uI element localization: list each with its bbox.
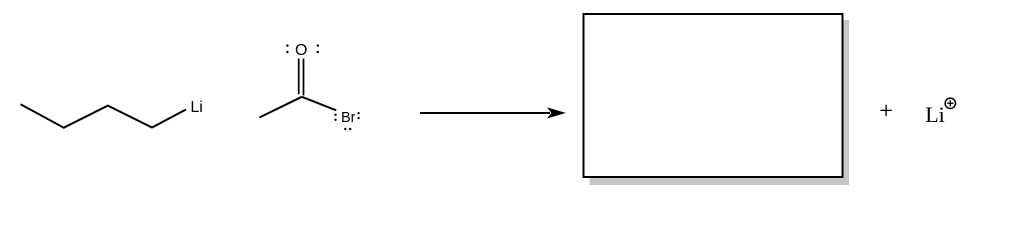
bond carbonyl carbon to Br: [302, 97, 336, 111]
reaction arrow shaft: [420, 112, 550, 114]
product box shadow: [590, 20, 850, 185]
O lone pair dots right: [317, 44, 319, 53]
Br lone pair dots right: [357, 112, 359, 119]
Br lone pair dots left: [334, 114, 336, 121]
svg-text:Br: Br: [341, 110, 356, 126]
bond CH3 to carbonyl carbon: [259, 97, 301, 118]
double bond C=O line 1: [298, 59, 300, 95]
butyllithium chain bonds: [21, 104, 187, 127]
svg-text:O: O: [295, 42, 307, 59]
product box: [584, 14, 843, 177]
circled plus charge symbol: [945, 98, 955, 108]
plus sign: [880, 105, 891, 116]
double bond C=O line 2: [303, 59, 305, 96]
svg-text:Li: Li: [925, 102, 945, 127]
svg-text:Li: Li: [190, 99, 202, 116]
Br lone pair dots bottom: [344, 128, 351, 130]
reaction arrow head: [548, 108, 565, 118]
O lone pair dots left: [286, 44, 288, 53]
